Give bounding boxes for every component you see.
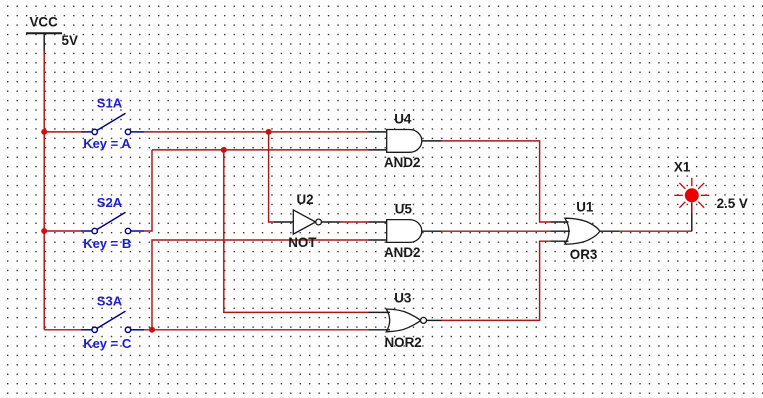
pin: U3 input A stub bbox=[369, 311, 391, 313]
pin: U5 input A stub bbox=[369, 221, 387, 223]
inverter U2 (NOT gate) bbox=[293, 210, 321, 234]
wire: U3 output to U1 input 3 bbox=[442, 241, 551, 320]
svg-text:U4: U4 bbox=[394, 112, 412, 127]
junction: net B branch to U3 bbox=[221, 147, 227, 153]
svg-text:U5: U5 bbox=[395, 202, 413, 217]
svg-text:U1: U1 bbox=[576, 200, 594, 215]
and-gate U5 (AND2) bbox=[387, 220, 422, 243]
wire: S1A output to U4 input A (net A) bbox=[144, 131, 368, 133]
pin: U3 output stub bbox=[427, 319, 442, 321]
junction: net A branch to U2 bbox=[266, 129, 272, 135]
switch S3A bbox=[81, 311, 144, 332]
pin: U1 input 1 stub bbox=[550, 221, 568, 223]
pin: U1 input 3 stub bbox=[550, 240, 568, 242]
and-gate U4 (AND2) bbox=[387, 130, 422, 153]
svg-text:AND2: AND2 bbox=[384, 155, 420, 170]
nor-gate U3 (NOR2) body bbox=[386, 309, 420, 332]
pin: U5 input B stub bbox=[369, 239, 387, 241]
wire: U4 output to U1 input 1 bbox=[442, 141, 551, 222]
svg-text:S1A: S1A bbox=[97, 95, 123, 110]
svg-text:U3: U3 bbox=[394, 291, 411, 306]
pin: U4 input A stub bbox=[369, 131, 387, 133]
svg-text:2.5 V: 2.5 V bbox=[717, 196, 748, 211]
wire: S3A output to U3 input B (net C) bbox=[144, 329, 368, 331]
wire: net C up and right to U5 input B bbox=[152, 240, 369, 330]
power VCC bbox=[26, 33, 62, 51]
svg-text:5V: 5V bbox=[62, 33, 78, 48]
pin: U2 input stub bbox=[274, 221, 293, 223]
probe X1 (lamp) rays bbox=[674, 178, 709, 213]
pin: U4 input B stub bbox=[369, 149, 387, 151]
svg-text:S2A: S2A bbox=[97, 195, 123, 210]
wire: U1 output to probe X1 bbox=[619, 230, 692, 232]
junction: rail to S2A bbox=[41, 228, 47, 234]
svg-text:NOR2: NOR2 bbox=[385, 335, 422, 350]
svg-text:S3A: S3A bbox=[97, 293, 123, 308]
wire: S2A output up to row B bbox=[144, 150, 152, 231]
pin: U3 input B stub bbox=[369, 329, 391, 331]
wire: VCC rail down left side bbox=[43, 51, 45, 330]
svg-text:Key = B: Key = B bbox=[83, 236, 131, 251]
or-gate U1 (OR3) body bbox=[565, 218, 600, 244]
wire: rail to S2A left terminal bbox=[44, 230, 81, 232]
svg-text:OR3: OR3 bbox=[570, 247, 598, 262]
wire: rail corner to S3A left terminal bbox=[44, 329, 81, 331]
switch S2A bbox=[81, 212, 144, 233]
svg-text:U2: U2 bbox=[297, 192, 314, 207]
junction: rail to S1A bbox=[41, 129, 47, 135]
junction: net C branch to U5 bbox=[149, 327, 155, 333]
wire: net A down to U2 input bbox=[269, 132, 276, 222]
pin: U1 input 2 stub bbox=[550, 230, 570, 232]
svg-text:VCC: VCC bbox=[30, 14, 59, 29]
wire: net B to U4 input B bbox=[152, 149, 369, 151]
svg-text:X1: X1 bbox=[674, 160, 691, 175]
svg-text:Key = A: Key = A bbox=[83, 136, 131, 151]
svg-text:AND2: AND2 bbox=[384, 245, 420, 260]
switch S1A bbox=[81, 113, 144, 134]
pin: U2 output stub bbox=[322, 221, 341, 223]
wire: U2 output to U5 input A bbox=[340, 221, 368, 223]
probe X1 (lamp) body bbox=[685, 188, 699, 202]
pin: U5 output stub bbox=[422, 230, 442, 232]
svg-text:NOT: NOT bbox=[288, 235, 317, 250]
bubble: U3 output inversion bbox=[421, 317, 427, 323]
wire: net B down to U3 input A bbox=[224, 150, 369, 313]
svg-text:Key = C: Key = C bbox=[83, 336, 132, 351]
wire: U5 output to U1 input 2 bbox=[442, 230, 551, 232]
pin: U1 output stub bbox=[600, 230, 619, 232]
pin: X1 probe lead bbox=[691, 202, 693, 231]
wire: rail to S1A left terminal bbox=[44, 131, 81, 133]
pin: U4 output stub bbox=[422, 140, 442, 142]
